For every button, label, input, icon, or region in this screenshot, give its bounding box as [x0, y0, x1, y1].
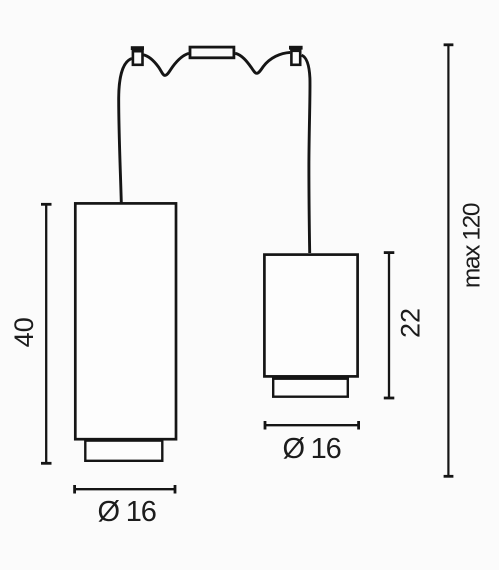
ceiling hook left: filled top bar — [131, 46, 144, 50]
wire: left drop from left hook to left lamp — [119, 59, 132, 203]
svg-text:40: 40 — [9, 317, 39, 347]
ceiling hook right: filled top bar — [289, 46, 303, 50]
ceiling hook left: body — [133, 51, 143, 65]
right lamp base — [273, 379, 348, 397]
wire: connector box to right hook (dip) — [235, 52, 290, 73]
left lamp base — [85, 441, 162, 461]
dimension 40: bottom cap — [41, 462, 52, 465]
svg-text:Ø 16: Ø 16 — [98, 496, 156, 528]
dimension right Ø16: left tick — [264, 421, 267, 430]
dimension 22: top cap — [384, 251, 395, 254]
svg-text:22: 22 — [395, 308, 425, 338]
dimension 40: vertical line — [45, 204, 47, 463]
right lamp body — [264, 255, 357, 377]
wire: left hook to connector box (dip) — [143, 53, 188, 75]
dimension 22: bottom cap — [384, 397, 395, 400]
dimension max 120: bottom cap — [444, 475, 454, 478]
left lamp body — [75, 203, 176, 439]
svg-text:max 120: max 120 — [459, 203, 486, 288]
dimension left Ø16: right tick — [174, 485, 177, 494]
svg-text:Ø 16: Ø 16 — [282, 433, 340, 465]
dimension max 120: top cap — [444, 43, 454, 46]
dimension 40: top cap — [41, 203, 52, 206]
dimension 22: vertical line — [388, 253, 390, 398]
wire: right drop from right hook to right lamp — [302, 55, 310, 253]
connector box (middle) — [190, 47, 234, 58]
ceiling hook right: body — [291, 51, 300, 65]
dimension right Ø16: right tick — [357, 421, 360, 430]
dimension max 120: vertical line — [447, 45, 449, 477]
dimension right Ø16: horizontal line — [265, 424, 359, 426]
dimension left Ø16: left tick — [73, 485, 76, 494]
dimension left Ø16: horizontal line — [74, 488, 175, 490]
